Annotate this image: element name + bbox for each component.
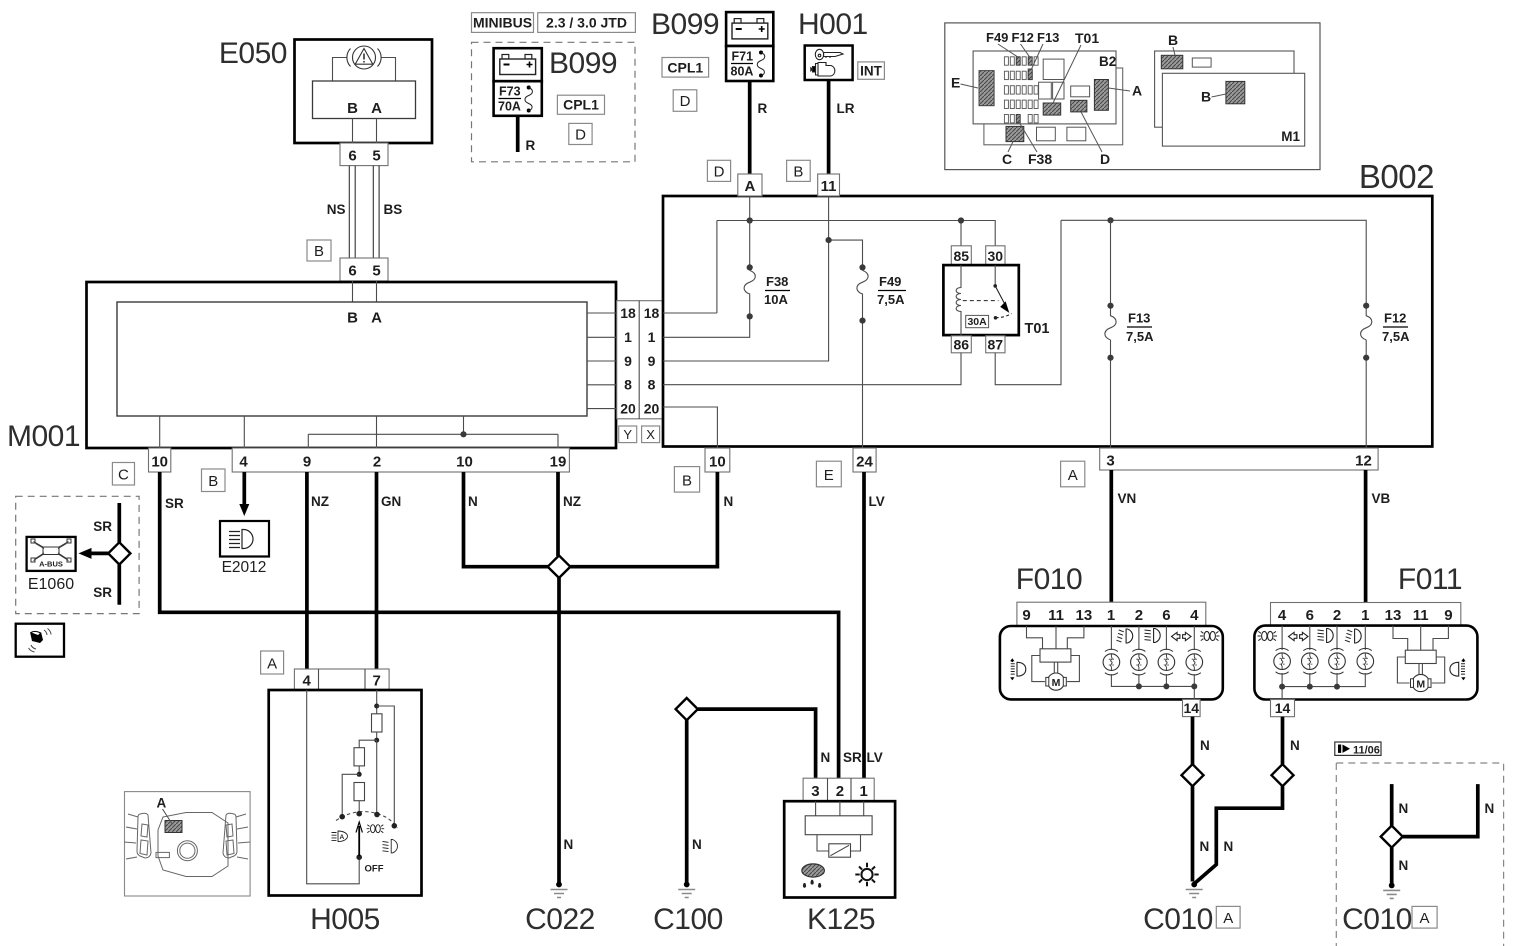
svg-text:R: R (758, 101, 768, 116)
pin 24 box (853, 448, 876, 472)
svg-text:14: 14 (1275, 700, 1291, 716)
fuse F13 slot (dark) (1028, 69, 1032, 80)
buzzer icon (29, 629, 52, 653)
svg-text:7,5A: 7,5A (1126, 329, 1154, 344)
svg-text:2: 2 (1135, 607, 1143, 624)
wire N from pin 10 to splice (570, 472, 717, 567)
rain icon (802, 864, 825, 887)
svg-text:7,5A: 7,5A (877, 292, 905, 307)
svg-text:A-BUS: A-BUS (39, 560, 63, 569)
svg-text:INT: INT (860, 63, 883, 78)
svg-text:1: 1 (624, 329, 632, 345)
steering shaft circle (177, 841, 197, 861)
internal wire to pin 4 (243, 416, 245, 448)
wire N from pin 14 (1281, 717, 1285, 765)
wire pin B down (352, 119, 354, 144)
right fusebox back panel (1155, 51, 1294, 127)
svg-text:C: C (1002, 151, 1012, 167)
svg-text:N: N (1399, 801, 1409, 816)
row 8 stub (587, 384, 617, 386)
key icon (811, 49, 843, 76)
connector label box D (569, 123, 592, 144)
svg-text:E2012: E2012 (222, 559, 267, 576)
junction dot (460, 431, 466, 437)
dashed variant area (472, 42, 636, 162)
wire N from C100 splice to K125 pin 3 (698, 709, 816, 778)
wire N to common ground (1195, 786, 1283, 883)
position light icon (367, 825, 385, 833)
leveling motor wires (1393, 626, 1448, 651)
splice diamond C100 (676, 698, 698, 720)
svg-text:11: 11 (1413, 607, 1429, 624)
fuse F73 70A (variant) (494, 81, 542, 116)
svg-text:A: A (1068, 467, 1078, 484)
white slot (1192, 58, 1211, 67)
fuse F38 (663, 221, 755, 338)
bulb stub pin 4 (1193, 626, 1195, 650)
svg-text:C010: C010 (1143, 903, 1213, 936)
bulb stub pin 2 (1138, 626, 1140, 650)
svg-text:LV: LV (867, 750, 883, 765)
low beam icon (383, 840, 398, 853)
F010 pin strip (1017, 602, 1206, 626)
svg-text:B: B (1168, 32, 1178, 48)
connector label box A (1061, 461, 1085, 487)
leveling icon (mirrored) (1450, 658, 1466, 680)
ground C010 (1186, 882, 1203, 898)
wire from connector B into inner block (352, 281, 354, 302)
wire VN from pin 3 to F010 (1109, 470, 1113, 602)
connector B on back panel (dark) (1161, 55, 1183, 69)
svg-text:M: M (1052, 677, 1061, 689)
twisted pair wire NS (349, 166, 355, 258)
fuse F49 slot (dark) (1016, 57, 1020, 65)
svg-text:C: C (118, 467, 129, 484)
svg-text:A: A (744, 178, 755, 195)
switched bus to fuses F13 F12 (1061, 220, 1366, 305)
internal wire pin 7 down (376, 690, 378, 714)
svg-text:30: 30 (988, 248, 1004, 264)
svg-text:2: 2 (1333, 607, 1341, 624)
arrow to E1060 (90, 552, 108, 556)
svg-text:A: A (1223, 910, 1233, 927)
svg-text:E1060: E1060 (28, 576, 74, 593)
wire stub pin 4 with arrow (242, 472, 246, 504)
svg-text:7,5A: 7,5A (1382, 329, 1410, 344)
inner block of M001 (117, 302, 587, 416)
wire N left (1390, 784, 1394, 826)
wire left lead to hazard symbol (333, 58, 348, 82)
svg-text:E: E (951, 75, 960, 91)
svg-text:B099: B099 (651, 8, 719, 41)
wire N from pin 14 (1191, 717, 1195, 765)
connector label box INT (858, 62, 885, 79)
svg-text:F38: F38 (1028, 151, 1052, 167)
contact dots (339, 814, 345, 820)
svg-text:F71: F71 (732, 50, 754, 64)
row 9 stub (587, 360, 617, 362)
row 20 stub (587, 408, 617, 410)
component box M001 (87, 282, 617, 448)
svg-text:8: 8 (624, 377, 632, 393)
connector label box E (816, 461, 841, 487)
right stalk (223, 813, 237, 858)
svg-text:K125: K125 (807, 903, 875, 936)
bulb 3 (low beam) (1329, 648, 1346, 674)
connector 6 5 lower (340, 258, 388, 281)
svg-text:NS: NS (327, 202, 346, 217)
selector arm arrow (358, 826, 360, 856)
lamp E2012 box (220, 521, 269, 557)
svg-text:6: 6 (348, 263, 356, 280)
svg-text:B002: B002 (1359, 158, 1434, 195)
bulb 2 (low beam) (1131, 649, 1148, 675)
wire NZ from pin 9 (305, 472, 309, 669)
svg-text:M: M (1416, 678, 1425, 690)
svg-text:B099: B099 (549, 47, 617, 80)
svg-text:9: 9 (1022, 607, 1030, 624)
svg-text:12: 12 (1355, 453, 1372, 470)
leveling motor wires (1027, 626, 1084, 649)
splice joint diamond (548, 556, 571, 578)
resistor 1 (372, 714, 383, 732)
svg-text:B2: B2 (1099, 54, 1116, 69)
connector label box B (787, 160, 811, 181)
left stalk (137, 813, 151, 858)
svg-text:1: 1 (860, 783, 868, 800)
pins 3 / 12 strip (1100, 448, 1378, 470)
svg-text:SR: SR (843, 750, 862, 765)
svg-text:M001: M001 (7, 420, 80, 453)
twisted pair wire BS (373, 166, 379, 258)
svg-text:9: 9 (624, 353, 632, 369)
svg-text:A: A (1419, 910, 1429, 927)
svg-text:BS: BS (384, 202, 403, 217)
E2012 headlight icon (229, 530, 253, 549)
F011 pin strip (1271, 603, 1461, 626)
ground bus of F011 (1282, 673, 1365, 700)
svg-text:86: 86 (954, 336, 970, 352)
svg-text:9: 9 (648, 353, 656, 369)
svg-text:11: 11 (821, 178, 837, 195)
connector label box D (707, 160, 730, 181)
svg-text:LV: LV (869, 494, 885, 509)
wire N to ground C010 (1191, 786, 1195, 881)
svg-text:4: 4 (239, 454, 248, 471)
svg-text:M1: M1 (1281, 129, 1300, 144)
svg-text:6: 6 (1306, 607, 1314, 624)
svg-text:H005: H005 (310, 903, 380, 936)
svg-text:OFF: OFF (365, 864, 384, 875)
bottom connector row white slots (1037, 127, 1056, 141)
svg-text:F49: F49 (986, 30, 1008, 45)
svg-text:18: 18 (620, 305, 636, 321)
splice diamond (1381, 826, 1403, 848)
svg-text:C100: C100 (653, 903, 723, 936)
svg-text:18: 18 (644, 305, 660, 321)
relay sockets (white) (1043, 59, 1064, 79)
svg-text:4: 4 (303, 673, 312, 690)
svg-text:9: 9 (303, 454, 311, 471)
junction dot A (747, 217, 753, 223)
svg-text:C022: C022 (525, 903, 595, 936)
wire VB from pin 12 to F011 (1364, 470, 1368, 603)
svg-text:B: B (208, 473, 218, 490)
svg-text:10: 10 (709, 454, 726, 471)
row 18 wire (663, 312, 717, 314)
connector label box D (673, 90, 697, 112)
row 1 stub (587, 336, 617, 338)
wire N to ground (1390, 848, 1394, 884)
svg-text:A: A (339, 834, 344, 841)
svg-text:8: 8 (648, 377, 656, 393)
component box E050 (295, 40, 433, 144)
svg-text:SR: SR (93, 519, 112, 534)
svg-text:D: D (714, 163, 725, 180)
svg-text:1: 1 (648, 329, 656, 345)
svg-text:24: 24 (856, 454, 873, 471)
component box H001 (805, 46, 853, 81)
svg-text:10: 10 (456, 454, 473, 471)
svg-text:VB: VB (1372, 491, 1391, 506)
junction dot 85 branch (958, 217, 964, 223)
svg-text:SR: SR (165, 496, 184, 511)
svg-text:30A: 30A (967, 316, 987, 328)
motor M (1047, 673, 1064, 690)
dashed area E1060 (16, 496, 139, 613)
svg-text:T01: T01 (1025, 321, 1050, 337)
ground C022 (525, 882, 595, 936)
svg-text:NZ: NZ (311, 494, 329, 509)
svg-text:B: B (793, 163, 803, 180)
svg-text:20: 20 (620, 401, 636, 417)
wire LV from pin 24 to K125 (862, 472, 866, 778)
svg-text:F12: F12 (1384, 311, 1406, 326)
bulb 2 (turn) (1302, 648, 1319, 674)
bulb 4 (fog) (1357, 648, 1374, 674)
row 8 wire to pin 86 (663, 353, 961, 385)
fog lamp icon (1116, 629, 1132, 643)
svg-text:NZ: NZ (563, 494, 581, 509)
svg-text:X: X (646, 427, 655, 442)
node E1060 box (27, 537, 76, 571)
splice diamond (108, 542, 130, 564)
internal bus joining pins 9,10,19 (308, 434, 558, 448)
rain/light sensor K125 box (784, 801, 895, 897)
wire pin A down (376, 119, 378, 144)
right connector column block (617, 301, 664, 419)
row 18 stub (587, 312, 617, 314)
svg-text:A: A (1132, 83, 1142, 99)
svg-text:GN: GN (381, 494, 401, 509)
connector label box A (1216, 906, 1240, 928)
connector label box Y (619, 426, 637, 443)
svg-text:3: 3 (811, 783, 819, 800)
turn signal icon (1172, 632, 1192, 640)
wire from connector A into inner block (376, 281, 378, 302)
branch to contact 3 (376, 740, 378, 812)
relay T01 box (943, 265, 1018, 335)
connector label box CPL1 (557, 95, 604, 114)
svg-text:E050: E050 (219, 37, 287, 70)
svg-text:14: 14 (1184, 700, 1200, 716)
wire N from pin 10 to joint (464, 472, 549, 567)
resistor 2 (354, 748, 365, 766)
svg-text:A: A (267, 656, 277, 673)
svg-text:F011: F011 (1398, 563, 1462, 596)
contact arc (dashed) (336, 812, 398, 828)
svg-text:11/06: 11/06 (1353, 745, 1380, 757)
K125 pin strip 3 2 1 (803, 778, 874, 801)
ground C100 (684, 882, 690, 888)
buzzer icon box (16, 624, 64, 657)
OFF contact dot (356, 854, 362, 860)
svg-text:CPL1: CPL1 (563, 97, 599, 113)
bulb stub pin 4 (1281, 626, 1283, 650)
internal wire to pin 10 (159, 416, 161, 448)
svg-text:11: 11 (1048, 607, 1064, 624)
svg-text:19: 19 (550, 454, 567, 471)
wire right lead to hazard symbol (381, 58, 396, 82)
svg-text:13: 13 (1076, 607, 1093, 624)
svg-text:F010: F010 (1016, 563, 1082, 596)
svg-text:A: A (157, 796, 167, 811)
relay rating box 30A (966, 315, 989, 327)
bulb stub pin 1 (1364, 626, 1366, 650)
pin 11 box (818, 174, 840, 196)
relay coil (956, 265, 961, 336)
relay pin 87 box (986, 336, 1005, 353)
motor M (1412, 674, 1429, 691)
connector label box C (112, 463, 134, 486)
connector C (dark) (1006, 126, 1024, 141)
low beam icon (1145, 629, 1161, 643)
svg-text:D: D (680, 93, 691, 110)
relay T01 pin 85 box (951, 246, 971, 265)
connector D (dark) (1071, 100, 1087, 112)
svg-text:E: E (824, 467, 834, 484)
svg-text:4: 4 (1190, 607, 1199, 624)
svg-text:1: 1 (1107, 607, 1115, 624)
bulb 4 (position) (1186, 649, 1203, 675)
svg-text:N: N (564, 837, 574, 852)
bulb stub pin 6 (1165, 626, 1167, 650)
ground C010 (variant) (1383, 883, 1400, 899)
internal sensor block (816, 801, 864, 816)
pin 14 box (1183, 699, 1201, 716)
svg-text:B: B (314, 243, 324, 260)
svg-text:D: D (575, 127, 586, 144)
connector A (dark) (1094, 80, 1108, 111)
svg-text:SR: SR (93, 585, 112, 600)
svg-text:2: 2 (836, 783, 844, 800)
pin 10 box (bottom) (705, 448, 730, 472)
svg-text:N: N (1485, 801, 1495, 816)
wire LR (827, 80, 831, 174)
fuse F12 (1361, 308, 1372, 448)
wire GN from pin 2 (375, 472, 379, 669)
svg-text:N: N (724, 494, 734, 509)
branch to right contact (377, 706, 395, 824)
connector label box CPL1 (662, 58, 709, 78)
svg-text:87: 87 (988, 336, 1004, 352)
fuse slot grid (1004, 57, 1038, 123)
sheet reference tab 11/06 (1335, 742, 1381, 755)
ground bus of F010 (1111, 674, 1194, 699)
svg-text:80A: 80A (731, 65, 754, 79)
svg-text:2.3 / 3.0 JTD: 2.3 / 3.0 JTD (546, 15, 627, 31)
svg-text:5: 5 (372, 263, 380, 280)
bulb stub pin 1 (1110, 626, 1112, 650)
auto light icon (332, 831, 348, 842)
low beam icon (1318, 629, 1334, 643)
svg-text:20: 20 (644, 401, 660, 417)
svg-text:N: N (468, 494, 478, 509)
leveling icon (1010, 658, 1026, 680)
small rect detail (156, 852, 169, 857)
svg-text:Y: Y (623, 427, 632, 442)
pin 14 box (1271, 700, 1295, 717)
wire N right (1403, 784, 1478, 837)
turn signal icon (1289, 632, 1309, 640)
battery B099 (726, 12, 773, 46)
svg-text:N: N (1290, 738, 1300, 753)
position light icon (1258, 631, 1278, 640)
relay T01 (dark) (1043, 103, 1061, 115)
bulb stub pin 2 (1336, 626, 1338, 650)
resistor 3 (354, 783, 365, 801)
bulb stub pin 6 (1309, 626, 1311, 650)
row 20 wire to pin 10 (663, 407, 717, 448)
relay pin 86 box (951, 336, 971, 353)
connector label box B (674, 467, 699, 493)
internal wire to pin 2 (376, 416, 378, 448)
svg-text:C010: C010 (1342, 903, 1412, 936)
svg-text:85: 85 (954, 248, 970, 264)
svg-text:N: N (1200, 839, 1210, 854)
svg-text:10: 10 (151, 454, 168, 471)
wire pin 11 to F49 and row 9 (663, 196, 863, 361)
svg-text:D: D (1100, 151, 1110, 167)
svg-text:VN: VN (1118, 491, 1137, 506)
pin numbers 18 1 9 8 20 (left column) (620, 305, 659, 417)
switch location A (dark) (165, 821, 182, 833)
fuse F13 (1105, 220, 1116, 448)
inner block of E050 (313, 81, 416, 119)
svg-text:B: B (347, 310, 358, 327)
svg-text:F38: F38 (766, 274, 788, 289)
svg-text:N: N (1399, 858, 1409, 873)
arrow to E2012 (239, 504, 249, 516)
svg-text:10A: 10A (764, 292, 788, 307)
wire NZ from pin 19 to joint (556, 472, 560, 556)
right fusebox front panel M1 (1162, 73, 1304, 146)
A-BUS icon (31, 539, 71, 562)
steering column illustration box (125, 792, 251, 896)
splice diamond (1272, 764, 1294, 786)
fog lamp icon (1345, 629, 1361, 643)
pin 87 wire to switched bus (995, 220, 1061, 384)
svg-text:B: B (1201, 89, 1211, 105)
relay switch (994, 265, 996, 286)
svg-text:6: 6 (348, 148, 356, 165)
svg-text:A: A (371, 100, 382, 117)
svg-text:T01: T01 (1075, 30, 1099, 46)
leveling actuator block (1040, 649, 1071, 662)
relay T01 pin 30 box (986, 246, 1005, 265)
connector label box B (202, 469, 226, 492)
pin A box (738, 174, 762, 196)
